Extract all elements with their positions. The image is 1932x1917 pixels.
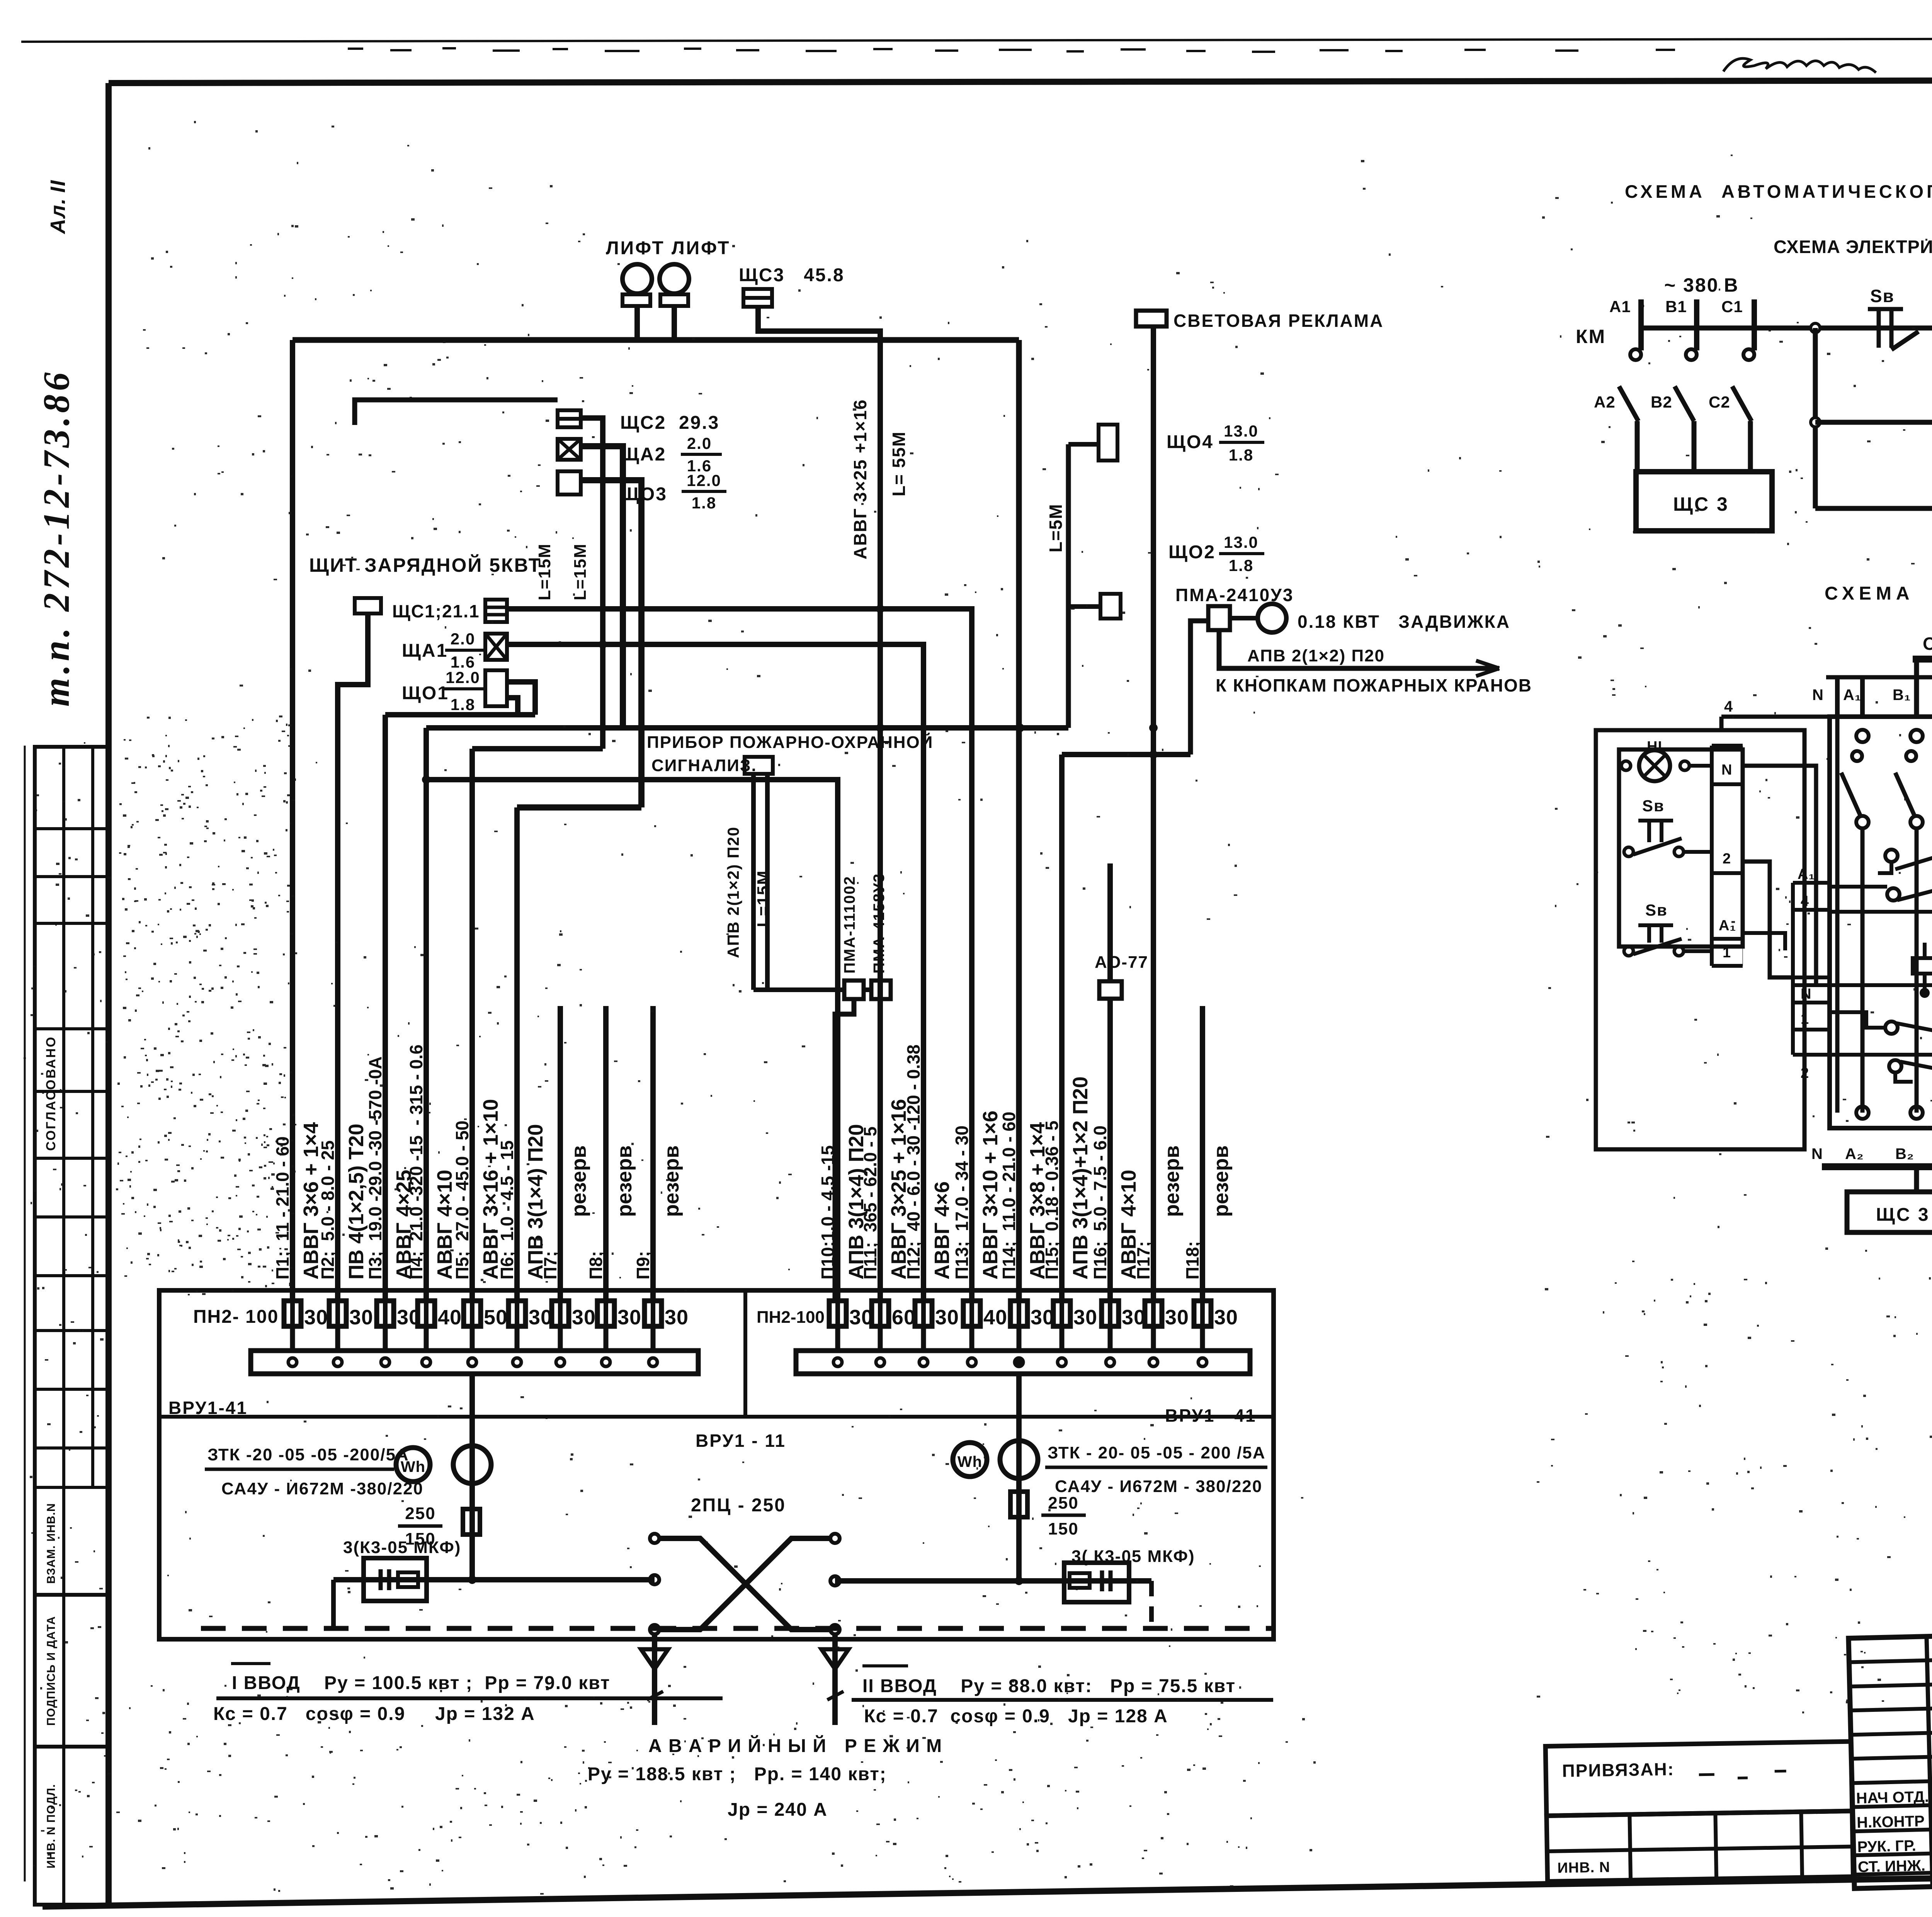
- svg-text:2.0: 2.0: [687, 434, 712, 452]
- svg-text:30: 30: [665, 1306, 689, 1329]
- fuse П13 40A: [963, 1301, 980, 1326]
- busbar left terminal 8: [602, 1358, 610, 1366]
- wire ladder 2 to КМ1: [1743, 862, 1793, 977]
- wire row КМ1 bottom: [1815, 506, 1932, 511]
- svg-text:Sв: Sв: [1642, 797, 1665, 815]
- motor задвижка circle: [1258, 604, 1286, 632]
- node dot k: [1015, 1358, 1023, 1366]
- wire to ЩС3 box: [1914, 1167, 1919, 1192]
- panel ЩО4 symbol: [1099, 425, 1117, 461]
- wire А2: [1635, 421, 1640, 472]
- svg-text:АПВ 2(1×2) П20: АПВ 2(1×2) П20: [724, 826, 742, 958]
- margin column row line: [35, 1329, 109, 1332]
- busbar right terminal 1: [833, 1358, 842, 1366]
- svg-text:резерв: резерв: [567, 1145, 590, 1217]
- fuse П12 30A: [915, 1301, 932, 1326]
- КМ1 pole 2 blade: [1895, 773, 1915, 816]
- wire ЩС3 to bus: [758, 307, 880, 340]
- panel ЩС3 symbol: [743, 289, 772, 307]
- busbar right terminal 7: [1106, 1358, 1114, 1366]
- svg-text:ПМА-2410У3: ПМА-2410У3: [1175, 585, 1294, 605]
- lift motor M1 circle: [622, 264, 652, 294]
- svg-text:резерв: резерв: [1160, 1145, 1184, 1217]
- fuse П6 30A: [509, 1301, 526, 1326]
- panel ЩА1 symbol: [485, 634, 507, 660]
- svg-text:СИГНАЛИЗ.: СИГНАЛИЗ.: [651, 756, 757, 775]
- fraction bar right: [1045, 1466, 1267, 1469]
- svg-text:П14; 11.0 - 21.0 - 60: П14; 11.0 - 21.0 - 60: [999, 1111, 1019, 1280]
- svg-text:В₁: В₁: [1893, 687, 1911, 704]
- margin column row line: [35, 1090, 109, 1093]
- wire В2: [1692, 421, 1697, 472]
- phase stub В1: [1694, 299, 1699, 350]
- wire П17b reserve stub: [1154, 1006, 1155, 1006]
- wire top bus: [293, 337, 1019, 343]
- panel ЩО3 symbol: [558, 471, 581, 495]
- wire reserve stub П7: [558, 1006, 563, 1300]
- wire fuse П12 to busbar: [921, 1326, 926, 1351]
- wire 2 row: [1793, 1053, 1932, 1057]
- svg-text:АО-77: АО-77: [1095, 953, 1148, 972]
- wire X mid-left stub: [654, 1579, 655, 1580]
- svg-text:СВЕТОВАЯ РЕКЛАМА: СВЕТОВАЯ РЕКЛАМА: [1173, 311, 1384, 331]
- svg-text:Sв: Sв: [1870, 286, 1895, 306]
- svg-text:НАЧ ОТД.: НАЧ ОТД.: [1856, 1788, 1929, 1807]
- signature table row: [1854, 1869, 1932, 1875]
- wire ladder А1 row: [1743, 933, 1785, 950]
- svg-text:резерв: резерв: [660, 1145, 683, 1217]
- fuse П7 30A: [552, 1301, 569, 1326]
- svg-text:ОТ ВРУ: ОТ ВРУ: [1923, 634, 1932, 654]
- wire задвижка feed: [1190, 621, 1208, 755]
- wire to ЩС2 cluster: [355, 400, 558, 425]
- svg-text:12.0: 12.0: [446, 668, 480, 687]
- wire fuse П17 to busbar: [1151, 1326, 1156, 1351]
- node dot j: [468, 1575, 476, 1584]
- wire mid horizontal left: [333, 1577, 655, 1582]
- КМ1 pole 1 blade: [1841, 773, 1861, 816]
- wire H_c horizontal: [426, 780, 838, 1300]
- lower cells col 1: [1629, 1815, 1631, 1880]
- svg-text:А₂: А₂: [1845, 1145, 1864, 1162]
- Sв ladder: [1710, 746, 1714, 966]
- fuse П2 30A: [329, 1301, 346, 1326]
- svg-text:ПН2- 100: ПН2- 100: [193, 1307, 279, 1327]
- fuse П9 30A: [645, 1301, 662, 1326]
- box ЩС3 principal: [1636, 472, 1772, 531]
- svg-text:ЩС1;21.1: ЩС1;21.1: [392, 601, 480, 621]
- margin column row line: [35, 875, 109, 878]
- wire реклама riser П17: [1151, 326, 1156, 1300]
- svg-text:АПВ 2(1×2) П20: АПВ 2(1×2) П20: [1247, 646, 1385, 665]
- busbar left terminal 4: [422, 1358, 430, 1366]
- svg-text:СОГЛАСОВАНО: СОГЛАСОВАНО: [44, 1036, 58, 1151]
- КМ1 aux row4: [1889, 1060, 1901, 1072]
- wire fuse П1 to busbar: [290, 1326, 295, 1351]
- svg-text:50: 50: [484, 1306, 508, 1329]
- signature table row: [1853, 1825, 1932, 1831]
- svg-text:4: 4: [1724, 698, 1733, 715]
- svg-text:30: 30: [349, 1306, 373, 1329]
- svg-text:HL: HL: [1647, 739, 1667, 755]
- svg-text:П10;1.0 - 4.5 -15: П10;1.0 - 4.5 -15: [818, 1145, 838, 1280]
- node dot c: [876, 605, 884, 613]
- svg-text:60: 60: [892, 1306, 916, 1329]
- КМ1 pole 1 terminal: [1856, 730, 1869, 742]
- svg-text:Wh: Wh: [957, 1453, 982, 1470]
- busbar right terminal 4: [968, 1358, 976, 1366]
- wire reserve stub П9: [650, 1006, 656, 1300]
- КМ1 pole 2 bottom terminal: [1910, 1106, 1923, 1119]
- busbar left terminal 2: [333, 1358, 342, 1366]
- svg-text:СТ. ИНЖ.: СТ. ИНЖ.: [1857, 1857, 1925, 1876]
- underline I ВВОД: [216, 1696, 723, 1700]
- busbar right terminal 5: [1015, 1358, 1023, 1366]
- svg-text:1.8: 1.8: [451, 695, 475, 714]
- svg-text:L=15М: L=15М: [754, 870, 773, 927]
- svg-text:П3; 19.0 -29.0 -30 -570 -0А: П3; 19.0 -29.0 -30 -570 -0А: [365, 1056, 385, 1280]
- svg-text:ЩА1: ЩА1: [402, 641, 448, 661]
- wire mid horizontal right: [835, 1578, 1151, 1584]
- svg-text:ВРУ1 - 11: ВРУ1 - 11: [696, 1431, 786, 1451]
- svg-text:Кс = 0.7 cosφ = 0.9 Jр = 12: Кс = 0.7 cosφ = 0.9 Jр = 128 А: [864, 1706, 1168, 1727]
- wire fuse П16 to busbar: [1108, 1326, 1113, 1351]
- svg-text:13.0: 13.0: [1224, 422, 1259, 440]
- svg-text:П17;: П17;: [1133, 1241, 1153, 1280]
- svg-text:150: 150: [1048, 1519, 1078, 1538]
- svg-text:П7;: П7;: [540, 1251, 560, 1280]
- wire сигнализ drop pair: [751, 774, 756, 990]
- svg-text:ЗТК -20 -05 -05 -200/5А: ЗТК -20 -05 -05 -200/5А: [207, 1445, 409, 1464]
- wire H6 horizontal: [385, 712, 535, 717]
- panel ЩС1 symbol: [485, 600, 507, 622]
- margin column row line: [35, 827, 109, 830]
- svg-text:П4; 21.0 -320 -15 - 315 - 0.: П4; 21.0 -320 -15 - 315 - 0.6: [406, 1045, 426, 1280]
- svg-text:ИНВ. N: ИНВ. N: [1557, 1859, 1610, 1876]
- busbar left terminal 3: [381, 1358, 389, 1366]
- КМ1 aux row3: [1885, 1021, 1898, 1034]
- ВРУ cabinet outer box: [159, 1290, 1274, 1639]
- svg-text:Ру = 188.5 квт ; Рр. = 140 к: Ру = 188.5 квт ; Рр. = 140 квт;: [588, 1764, 887, 1784]
- wire fuse П5 to busbar: [470, 1326, 475, 1351]
- wire left busbar drop: [469, 1374, 475, 1580]
- signature table row: [1854, 1849, 1932, 1855]
- fuse П14 30A: [1010, 1301, 1027, 1326]
- blade КМ-В: [1675, 386, 1694, 421]
- svg-text:А₁: А₁: [1843, 687, 1861, 704]
- capacitor block right box: [1064, 1563, 1129, 1602]
- wire dashed bottom: [201, 1626, 1271, 1631]
- svg-text:В1: В1: [1665, 297, 1687, 316]
- lower cells divider row: [1547, 1847, 1853, 1851]
- svg-text:ПВ 4(1×2,5) Т20: ПВ 4(1×2,5) Т20: [345, 1124, 368, 1280]
- svg-text:ЩО2: ЩО2: [1168, 542, 1216, 563]
- tick I input: [647, 1691, 663, 1700]
- svg-text:30: 30: [617, 1306, 641, 1329]
- svg-text:2: 2: [1723, 851, 1731, 867]
- КМ1 pole 1 lower terminal: [1856, 816, 1869, 828]
- wire ЩА2 feed: [581, 446, 623, 728]
- svg-text:ЩО1: ЩО1: [402, 683, 449, 704]
- phase stub А1: [1638, 299, 1644, 350]
- wire fuse П8 to busbar: [604, 1326, 609, 1351]
- lift motor M1 terminal box: [622, 294, 650, 306]
- wire fuse П10 to busbar: [835, 1326, 840, 1351]
- wire ladder N to КМ1: [1743, 766, 1816, 985]
- svg-text:П8;: П8;: [586, 1251, 606, 1280]
- svg-text:ПРИВЯЗАН:: ПРИВЯЗАН:: [1562, 1759, 1674, 1781]
- ВРУ top section divider vertical: [743, 1290, 747, 1417]
- wire reserve stub П8: [603, 1006, 609, 1300]
- svg-text:П6; 1.0 - 4.5 - 15: П6; 1.0 - 4.5 - 15: [497, 1140, 517, 1280]
- wire fuse П18 to busbar: [1200, 1326, 1205, 1351]
- svg-text:30: 30: [935, 1306, 959, 1329]
- svg-text:В2: В2: [1651, 393, 1672, 411]
- signature table row: [1852, 1777, 1932, 1783]
- svg-text:С1: С1: [1721, 297, 1743, 316]
- wire ЩО2 stub: [1068, 604, 1100, 609]
- panel ЩО2 symbol: [1100, 594, 1121, 619]
- svg-text:1: 1: [1723, 945, 1731, 961]
- svg-text:КМ: КМ: [1576, 326, 1606, 347]
- wire top row: [1641, 326, 1932, 331]
- button Sв ext1: [1638, 819, 1673, 823]
- wire fuse П6 to busbar: [515, 1326, 520, 1351]
- wire starter-motor: [1230, 616, 1258, 620]
- wire П18 reserve stub: [1200, 1006, 1205, 1300]
- wire ЩС1 long horizontal: [507, 609, 972, 1300]
- svg-text:А1: А1: [1609, 297, 1631, 316]
- svg-text:ЗТК - 20- 05 -05 - 200 /5А: ЗТК - 20- 05 -05 - 200 /5А: [1048, 1443, 1266, 1462]
- svg-text:СХЕМА АВТОМАТИЧЕСКОГО ОТКЛЮЧ: СХЕМА АВТОМАТИЧЕСКОГО ОТКЛЮЧЕНИЯ ВЕНТИЛЯ…: [1625, 181, 1932, 202]
- fuse П8 30A: [597, 1301, 614, 1326]
- wire П12 lower: [923, 644, 924, 645]
- wire К КНОПКАМ arrow line: [1219, 630, 1499, 668]
- contact КМ-В hook: [1686, 349, 1697, 360]
- svg-text:30: 30: [1073, 1306, 1097, 1329]
- svg-text:П13; 17.0 - 34 - 30: П13; 17.0 - 34 - 30: [952, 1125, 972, 1280]
- svg-text:резерв: резерв: [1209, 1145, 1233, 1217]
- panel ЩО1 symbol: [485, 670, 507, 706]
- busbar right terminal 9: [1198, 1358, 1207, 1366]
- svg-text:2.0: 2.0: [451, 630, 475, 648]
- svg-text:30: 30: [572, 1306, 596, 1329]
- node dot f: [876, 724, 884, 732]
- busbar left terminal 5: [468, 1358, 476, 1366]
- svg-text:1.8: 1.8: [692, 494, 716, 512]
- blade КМ-С: [1732, 386, 1752, 421]
- margin column divider vertical: [62, 747, 65, 1905]
- wire top thin link: [1826, 675, 1932, 680]
- fuse П11 60A: [872, 1301, 889, 1326]
- starter ПМА-2410У3 box: [1208, 606, 1230, 630]
- wire N inner: [1835, 717, 1840, 1113]
- svg-text:АВВГ 3×10 + 1×6: АВВГ 3×10 + 1×6: [979, 1111, 1002, 1280]
- busbar left: [251, 1351, 698, 1374]
- wire to node1: [1909, 326, 1932, 331]
- arrow I input: [641, 1649, 668, 1669]
- svg-text:1.8: 1.8: [1229, 556, 1253, 574]
- svg-text:30: 30: [1165, 1306, 1189, 1329]
- wire M1 drop: [634, 306, 640, 340]
- wire ЩС2 feed: [581, 418, 603, 749]
- wire П1 riser top corner: [290, 340, 295, 1300]
- transfer switch X wiring: [659, 1538, 830, 1630]
- svg-text:30: 30: [1122, 1306, 1146, 1329]
- wire зарядный drop: [338, 614, 368, 1300]
- device сигнализ box: [745, 757, 773, 774]
- wire row 1093: [1815, 420, 1932, 425]
- svg-text:ЩС2 29.3: ЩС2 29.3: [620, 413, 719, 433]
- transfer switch contacts left: [650, 1534, 659, 1543]
- button Sв ext2: [1638, 923, 1673, 927]
- busbar right terminal 3: [919, 1358, 928, 1366]
- blade КМ-А: [1619, 386, 1638, 421]
- signature table col 1: [1927, 1637, 1932, 1887]
- КМ1 pole 2 wire: [1915, 828, 1919, 1113]
- svg-text:П9;: П9;: [633, 1251, 653, 1280]
- svg-text:ЛИФТ ЛИФТ: ЛИФТ ЛИФТ: [606, 238, 731, 258]
- wire junction drop: [1813, 328, 1818, 508]
- svg-text:30: 30: [1214, 1306, 1238, 1329]
- КМ1 coil node: [1920, 988, 1930, 998]
- fuse П3 30A: [377, 1301, 394, 1326]
- contactor ПМА-111002 box: [844, 981, 864, 999]
- svg-text:L=15М: L=15М: [571, 543, 590, 600]
- wire fuse П4 to busbar: [424, 1326, 429, 1351]
- svg-text:П1; 11 - 21.0 - 60: П1; 11 - 21.0 - 60: [272, 1136, 293, 1280]
- underline II ВВОД: [852, 1698, 1273, 1702]
- fuse 250/150 right: [1010, 1492, 1027, 1517]
- Sв inner box: [1619, 749, 1743, 947]
- signature table row: [1851, 1753, 1932, 1759]
- svg-text:2ПЦ - 250: 2ПЦ - 250: [691, 1495, 786, 1516]
- wire fuse П9 to busbar: [651, 1326, 656, 1351]
- meter Wh left circle: [396, 1448, 430, 1482]
- margin column row line: [35, 922, 109, 925]
- svg-text:30: 30: [304, 1306, 328, 1329]
- wire H4 horizontal: [1062, 752, 1190, 757]
- tick II input: [827, 1691, 844, 1700]
- busbar right terminal 8: [1149, 1358, 1158, 1366]
- panel ЩА2 symbol: [558, 439, 581, 460]
- svg-text:А₁: А₁: [1719, 918, 1736, 934]
- svg-text:Sв: Sв: [1645, 901, 1668, 919]
- svg-text:А В А Р И Й Н Ы Й Р Е Ж И М: А В А Р И Й Н Ы Й Р Е Ж И М: [648, 1735, 942, 1756]
- КМ1 pole 1 wire: [1861, 828, 1865, 1113]
- bus от ВРУ: [1913, 656, 1932, 663]
- КМ1 box: [1830, 717, 1932, 1128]
- lift motor M2 circle: [660, 264, 689, 294]
- margin column row line: [35, 1446, 109, 1450]
- wire fuse П11 to busbar: [878, 1326, 883, 1351]
- svg-text:40: 40: [983, 1306, 1007, 1329]
- wire btn1 to ladder: [1684, 850, 1712, 854]
- node dot h: [1149, 724, 1158, 732]
- svg-text:12.0: 12.0: [687, 471, 721, 489]
- wire M2 drop: [672, 306, 677, 340]
- svg-text:Jр = 240 А: Jр = 240 А: [728, 1800, 828, 1820]
- transfer switch contacts right: [830, 1534, 840, 1543]
- wire I input drop: [652, 1634, 657, 1725]
- margin column outer box: [35, 747, 109, 1905]
- fuse П1 30A: [284, 1301, 301, 1326]
- КМ1 pole 1 bottom terminal: [1856, 1106, 1869, 1119]
- привязан speckle: [1699, 1771, 1786, 1779]
- svg-text:П18;: П18;: [1182, 1241, 1202, 1280]
- busbar right terminal 2: [876, 1358, 884, 1366]
- capacitor right symbol: [1070, 1573, 1090, 1588]
- arrow II input: [821, 1649, 849, 1669]
- svg-text:П15; 0.18 - 0.36 - 5: П15; 0.18 - 0.36 - 5: [1042, 1120, 1062, 1280]
- fuse П18 30A: [1194, 1301, 1211, 1326]
- КМ1 coil inner: [1913, 958, 1932, 974]
- svg-text:II ВВОД Ру = 88.0 квт: Рр: II ВВОД Ру = 88.0 квт: Рр = 75.5 квт: [862, 1676, 1236, 1696]
- fuse П5 50A: [464, 1301, 481, 1326]
- margin column row line: [35, 1274, 109, 1277]
- margin column row line: [35, 1593, 109, 1597]
- svg-text:N: N: [1811, 1145, 1823, 1162]
- svg-text:ВРУ1-41: ВРУ1-41: [168, 1398, 248, 1418]
- wire N drop: [1835, 677, 1840, 717]
- fuse 250/150 left: [463, 1509, 480, 1535]
- wire В1 drop from bus: [1914, 659, 1919, 717]
- wire П5 riser: [469, 749, 475, 1300]
- lamp HL ext: [1639, 750, 1670, 781]
- КМ1 pole 2 terminal: [1910, 730, 1923, 742]
- signature table row: [1852, 1801, 1932, 1807]
- busbar left terminal 1: [288, 1358, 297, 1366]
- svg-text:ЩС 3: ЩС 3: [1876, 1205, 1930, 1225]
- wire П10 lower: [835, 999, 854, 1300]
- wire btn2 to ladder: [1684, 949, 1712, 953]
- svg-text:П12; 40 - 6.0 - 30 -120 - 0.3: П12; 40 - 6.0 - 30 -120 - 0.38: [903, 1045, 923, 1280]
- wire cap drop left: [331, 1580, 336, 1628]
- fuse П15 30A: [1053, 1301, 1070, 1326]
- КМ1 left ladder: [1791, 883, 1795, 1055]
- svg-text:ПОДПИСЬ И ДАТА: ПОДПИСЬ И ДАТА: [45, 1616, 58, 1726]
- svg-text:СХЕМА ЭЛЕКТРИЧЕСКАЯ ПРИНЦИПИА: СХЕМА ЭЛЕКТРИЧЕСКАЯ ПРИНЦИПИАЛЬНАЯ: [1774, 236, 1932, 257]
- node dot d: [422, 775, 430, 784]
- svg-text:0.18 КВТ ЗАДВИЖКА: 0.18 КВТ ЗАДВИЖКА: [1298, 612, 1510, 632]
- lower cells col 2: [1715, 1813, 1716, 1879]
- signature table row: [1850, 1681, 1932, 1686]
- box ЩС3 external: [1847, 1192, 1932, 1232]
- svg-text:т.п. 272-12-73.86: т.п. 272-12-73.86: [36, 369, 77, 707]
- margin column row line: [35, 1486, 109, 1489]
- svg-text:Н.КОНТР: Н.КОНТР: [1857, 1813, 1925, 1831]
- bus КМ1 bottom: [1822, 1163, 1932, 1170]
- lower cells col 3: [1801, 1812, 1802, 1878]
- wire ЩО3 feed: [581, 480, 641, 807]
- КМ1 aux row2: [1887, 888, 1900, 901]
- wire H_a horizontal: [426, 725, 1068, 731]
- margin column row line: [35, 1215, 109, 1219]
- wire П13 riser: [971, 608, 972, 609]
- wire fuse П15 to busbar: [1060, 1326, 1065, 1351]
- panel зарядный stub box: [355, 598, 381, 614]
- svg-text:3(К3-05 МКФ): 3(К3-05 МКФ): [343, 1538, 461, 1557]
- svg-text:ЩА2: ЩА2: [620, 444, 666, 465]
- КМ1 aux row1: [1885, 850, 1898, 862]
- wire П3 riser: [383, 715, 388, 1300]
- fraction bar left: [205, 1468, 394, 1471]
- svg-text:СА4У - И672М - 380/220: СА4У - И672М - 380/220: [1055, 1477, 1262, 1496]
- svg-text:~ 380 В: ~ 380 В: [1664, 274, 1739, 296]
- svg-text:АВВГ 4×6: АВВГ 4×6: [930, 1181, 954, 1280]
- svg-text:N: N: [1721, 762, 1732, 778]
- wire fuse П13 to busbar: [969, 1326, 975, 1351]
